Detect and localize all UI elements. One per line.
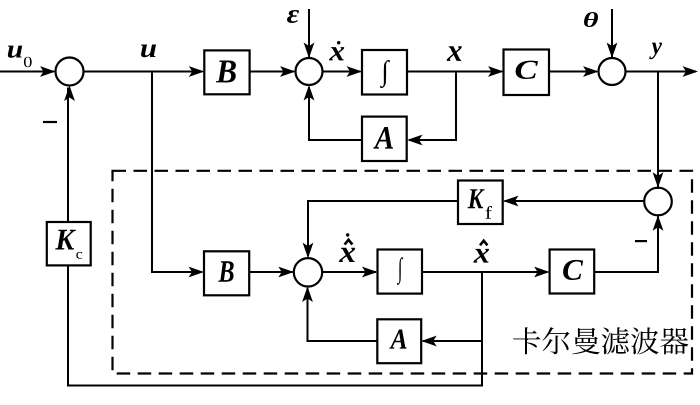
label u0: 0 subscript xyxy=(24,57,32,68)
arrow C2 output into sum4 bottom xyxy=(653,215,664,231)
block integrator bottom xyxy=(378,250,423,294)
label u0: u xyxy=(8,46,22,58)
label xhatdot: hat xyxy=(345,240,353,245)
arrow Kc output into sum1 bottom xyxy=(64,86,75,102)
label C top xyxy=(516,61,538,79)
label A bottom xyxy=(389,329,406,348)
wire B2 to sum5 xyxy=(249,271,292,273)
label y xyxy=(649,43,662,60)
block C top xyxy=(504,50,550,96)
wire x node down and left to A right side xyxy=(409,72,456,141)
arrow into sum5 left xyxy=(278,267,294,278)
arrow into A right side xyxy=(407,135,423,146)
arrow Kf output into sum5 top xyxy=(303,243,314,259)
label integral top xyxy=(380,60,390,88)
label xdot: x xyxy=(329,47,344,60)
arrow A2 feedback into sum5 bottom xyxy=(302,287,313,303)
summing junction sum4 xyxy=(644,188,672,216)
summing junction sum2 xyxy=(296,58,323,85)
label epsilon xyxy=(287,10,299,23)
label Kc: K xyxy=(55,230,76,250)
wire sum4 left to Kf right xyxy=(505,200,645,202)
arrow into sum1 left xyxy=(40,66,56,77)
wire integrator2 to C2 (xhat branch node at x=482) xyxy=(422,271,548,273)
label xhatdot: x xyxy=(339,248,355,262)
label A top xyxy=(373,127,393,149)
arrow into A2 right side xyxy=(421,336,437,347)
wire sum1 to B (u branch node at x=152) xyxy=(84,71,203,73)
label Kf: f subscript xyxy=(486,206,492,219)
summing junction sum1 xyxy=(56,58,84,86)
arrow into B left xyxy=(189,66,205,77)
block A bottom xyxy=(377,319,421,363)
label xdot: dot xyxy=(337,41,340,44)
label minus at sum1 xyxy=(43,121,57,123)
label: Kalman filter Chinese text 卡尔曼滤波器 xyxy=(513,327,688,354)
wire u0 input into sum1 xyxy=(0,71,54,73)
wire Kc top up to sum1 bottom xyxy=(67,88,69,223)
wire A left side to sum2 bottom xyxy=(309,87,362,140)
label xhat: hat xyxy=(480,241,487,246)
arrow theta into sum3 top xyxy=(607,43,618,59)
wire u branch down and right to B2 xyxy=(152,72,202,273)
arrow u into B2 left xyxy=(189,267,205,278)
label u xyxy=(141,44,156,57)
wire xhat node down and left to A2 right side xyxy=(423,272,482,341)
block Kf xyxy=(458,181,503,225)
wire integrator to C (x branch node at x=456) xyxy=(407,71,502,73)
arrow A feedback into sum2 bottom xyxy=(304,85,315,101)
arrow into integrator left xyxy=(347,66,363,77)
arrow y output at right edge xyxy=(683,66,699,77)
summing junction sum5 xyxy=(294,258,322,286)
block C bottom xyxy=(550,250,595,294)
arrow into Kf right side xyxy=(503,196,519,207)
arrow y feedback into sum4 top xyxy=(653,172,664,188)
arrow into C left xyxy=(488,66,504,77)
label theta xyxy=(584,12,598,27)
block Kc xyxy=(47,222,91,265)
label x xyxy=(447,46,462,61)
label integral bottom xyxy=(397,257,403,285)
arrow into C2 left xyxy=(534,267,550,278)
dashed box: Kalman filter boundary xyxy=(113,171,693,374)
wire B to sum2 xyxy=(250,71,294,73)
label Kc: c subscript xyxy=(76,252,82,259)
block integrator top xyxy=(362,50,407,95)
label Kf: K xyxy=(468,189,485,208)
arrow epsilon into sum2 top xyxy=(304,43,315,59)
wire sum5 to integrator2 xyxy=(322,271,376,273)
wire sum2 to integrator xyxy=(323,71,361,73)
label xhatdot: dot xyxy=(346,233,349,236)
wire Kf left to sum5 top xyxy=(308,201,458,257)
wire y node down to sum4 top xyxy=(657,72,659,190)
label B top xyxy=(216,61,236,83)
arrow into sum2 left xyxy=(280,66,296,77)
block A top xyxy=(362,117,407,161)
wire sum3 to y output (y branch node at x=658) xyxy=(626,71,697,73)
wire epsilon input down to sum2 xyxy=(308,9,310,57)
block B top xyxy=(204,50,249,94)
label C bottom xyxy=(563,260,583,280)
label minus at sum4 xyxy=(635,240,647,242)
label B bottom xyxy=(218,261,233,282)
arrow into sum3 left xyxy=(583,66,599,77)
summing junction sum3 xyxy=(599,58,626,85)
wire theta input down to sum3 xyxy=(611,9,613,57)
wire C2 right and up to sum4 bottom xyxy=(594,217,658,273)
arrow into integrator2 left xyxy=(362,267,378,278)
wire xhat down, left along bottom, and up to Kc bottom xyxy=(68,265,482,385)
wire A2 left side to sum5 bottom xyxy=(308,288,378,341)
label xhat: x xyxy=(473,249,489,263)
wire C to sum3 xyxy=(549,71,597,73)
block B bottom xyxy=(204,251,249,295)
